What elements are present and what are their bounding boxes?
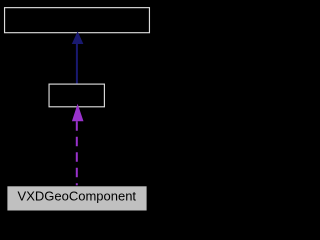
wire: inheritance edge (solid midnightblue line) [76, 43, 78, 84]
inheritance arrowhead [72, 31, 84, 44]
node: intermediate class (empty box, middle) [49, 84, 104, 107]
wire: usage edge (dashed darkorchid line) [76, 121, 78, 186]
usage arrowhead (darkorchid) [72, 104, 84, 121]
svg-text:VXDGeoComponent: VXDGeoComponent [18, 188, 137, 203]
node: base class (empty box, top) [5, 8, 150, 33]
node: VXDGeoComponent (current class, filled gray) [7, 186, 147, 211]
